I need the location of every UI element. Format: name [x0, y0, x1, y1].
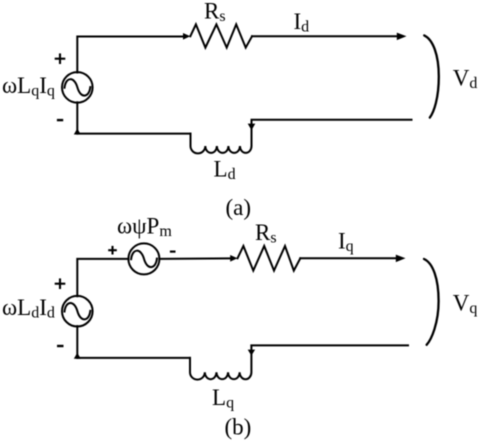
minus sign of source U3 — [170, 251, 176, 253]
source U3 sine — [131, 251, 157, 267]
current arrow Iq head — [396, 255, 406, 263]
junction arrow (up) at source bottom, circuit b — [74, 353, 81, 359]
plus sign of source U1 — [55, 53, 66, 64]
wire arrow into resistor R1 — [183, 33, 190, 40]
wire: circuit (b) bottom-left horizontal — [77, 357, 190, 359]
svg-text:Rs: Rs — [204, 0, 226, 25]
wire: circuit (a) bottom-left horizontal — [77, 133, 190, 135]
source U3 circle (omega psi Pm) — [128, 243, 159, 274]
svg-text:Ld: Ld — [214, 157, 236, 184]
wire: circuit (b) bottom-right horizontal — [251, 344, 408, 346]
resistor R1 Rs (circuit a) — [190, 24, 252, 47]
wire: source U1 bottom lead — [76, 102, 78, 133]
wire: resistor to right end (circuit a top) — [252, 35, 398, 37]
inductor L2 Lq — [190, 346, 251, 380]
svg-text:ωLdId: ωLdId — [2, 295, 55, 322]
bracket Vd (right parenthesis, circuit a) — [424, 35, 439, 117]
wire: circuit (b) left vertical + top horizontal to source U3 — [77, 259, 128, 296]
source U1 circle (omega Lq Iq) — [62, 72, 93, 103]
svg-text:Iq: Iq — [338, 229, 354, 256]
wire: resistor R2 to right end (circuit b top) — [300, 257, 396, 259]
wire: circuit (a) bottom-right horizontal — [252, 119, 412, 121]
svg-text:Vd: Vd — [453, 66, 478, 93]
minus sign of source U1 — [57, 119, 63, 121]
inductor L1 Ld — [190, 120, 251, 153]
wire: circuit (a) left vertical + top horizontal — [77, 37, 182, 73]
source U2 circle (omega Ld Id) — [62, 296, 93, 327]
minus sign of source U2 — [57, 345, 64, 347]
resistor R2 Rs (circuit b) — [238, 246, 301, 271]
svg-text:Id: Id — [294, 9, 310, 36]
plus sign of source U2 — [55, 278, 66, 289]
svg-text:Lq: Lq — [212, 385, 234, 412]
svg-text:Vq: Vq — [453, 290, 478, 317]
svg-text:Rs: Rs — [255, 220, 277, 247]
plus sign of source U3 — [108, 246, 117, 255]
source U1 sine — [65, 79, 91, 95]
svg-text:(a): (a) — [226, 195, 252, 220]
down arrow on inductor right lead (a) — [248, 124, 256, 131]
current arrow Id head — [397, 33, 407, 41]
wire: source U2 bottom lead — [76, 326, 78, 358]
down arrow on inductor right lead (b) — [248, 350, 255, 356]
junction arrow (up) at source bottom, circuit a — [74, 129, 81, 135]
wire arrow into resistor R2 — [230, 255, 237, 262]
bracket Vq (right parenthesis, circuit b) — [424, 259, 439, 345]
svg-text:(b): (b) — [225, 415, 252, 440]
svg-text:ωLqIq: ωLqIq — [2, 73, 55, 100]
wire: source U3 to resistor R2 — [159, 257, 229, 260]
svg-text:ωψPm: ωψPm — [117, 214, 172, 241]
source U2 sine — [65, 303, 91, 319]
